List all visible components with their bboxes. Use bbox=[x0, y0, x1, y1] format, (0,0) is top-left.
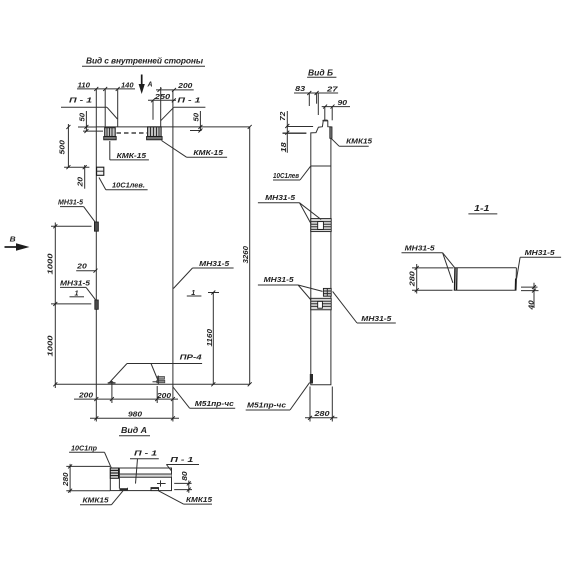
label PR-4 bbox=[109, 353, 202, 383]
svg-text:3260: 3260 bbox=[241, 245, 250, 263]
embed PR-4 item bottom-left bbox=[108, 381, 116, 384]
dim 3260 bbox=[241, 125, 252, 386]
embed KMK-15 left block bbox=[104, 128, 117, 140]
svg-text:Вид с внутренней стороны: Вид с внутренней стороны bbox=[86, 56, 203, 66]
section mark P-1 left bbox=[61, 96, 117, 120]
svg-text:80: 80 bbox=[180, 471, 189, 481]
svg-text:МН31-5: МН31-5 bbox=[58, 197, 84, 206]
svg-text:МН31-5: МН31-5 bbox=[199, 259, 230, 268]
embed 10S1pr channel block view A bbox=[110, 468, 119, 489]
svg-text:1: 1 bbox=[75, 288, 79, 297]
section cut mark 1 right bbox=[187, 288, 202, 297]
svg-text:500: 500 bbox=[58, 139, 67, 154]
section mark P-1 right bbox=[161, 96, 206, 121]
dim extension line x=117.7 bbox=[117, 89, 119, 127]
svg-text:МН31-5: МН31-5 bbox=[525, 248, 556, 257]
embed MN31-5 lower big block view B bbox=[311, 298, 331, 310]
dim 50 left bbox=[78, 111, 104, 133]
svg-text:40: 40 bbox=[527, 299, 536, 310]
dim 20 lower bbox=[76, 262, 97, 273]
embed 10S1lev item top-left bbox=[97, 167, 104, 175]
svg-text:В: В bbox=[10, 234, 17, 243]
svg-text:П - 1: П - 1 bbox=[170, 455, 193, 464]
dim 72/18 view B bbox=[278, 111, 313, 153]
view B column outline bbox=[311, 120, 331, 385]
svg-text:А: А bbox=[147, 80, 153, 89]
svg-text:27: 27 bbox=[326, 84, 339, 93]
dim 83/27 view B bbox=[294, 84, 338, 115]
embed KMK15 plate on right edge of column bbox=[330, 127, 332, 138]
dim 110 / 140 top bbox=[77, 80, 135, 91]
embed MN31-5 plate right edge 1-1 bbox=[515, 279, 517, 291]
dim 40 section 1-1 bbox=[521, 283, 539, 311]
svg-text:МН31-5: МН31-5 bbox=[405, 244, 436, 253]
label MN31-5 upper-left bbox=[58, 197, 96, 222]
dim extension x=160.7 bbox=[160, 87, 162, 127]
title view A "Вид А" bbox=[119, 425, 150, 436]
embed KMK15 right item view A bbox=[151, 488, 159, 491]
svg-text:20: 20 bbox=[76, 176, 85, 188]
svg-text:280: 280 bbox=[408, 270, 417, 287]
svg-text:Вид А: Вид А bbox=[121, 425, 147, 435]
panel bottom edge bbox=[55, 383, 249, 385]
label M51pr-chs right bbox=[246, 383, 310, 410]
svg-text:10С1лев: 10С1лев bbox=[273, 171, 299, 180]
svg-text:18: 18 bbox=[279, 141, 288, 152]
label MN31-5 right 1-1 bbox=[517, 248, 562, 279]
dim extension x=153 bbox=[152, 100, 154, 120]
svg-text:1000: 1000 bbox=[46, 253, 55, 275]
embed MN31-5 plate left edge 1-1 bbox=[455, 268, 457, 290]
dim 980 bottom bbox=[90, 410, 179, 421]
dim 90 view B bbox=[322, 98, 350, 121]
view A bar outline bbox=[110, 468, 171, 491]
svg-text:М51пр-чс: М51пр-чс bbox=[195, 399, 235, 408]
svg-text:КМК-15: КМК-15 bbox=[193, 148, 223, 157]
embed M51pr item view B bottom bbox=[310, 374, 313, 384]
title view B "Вид Б" bbox=[307, 68, 336, 78]
svg-text:110: 110 bbox=[78, 80, 91, 89]
svg-text:90: 90 bbox=[338, 98, 348, 107]
dim 280 view B bbox=[305, 387, 337, 422]
svg-text:1000: 1000 bbox=[46, 335, 55, 357]
svg-text:50: 50 bbox=[78, 112, 87, 121]
svg-text:140: 140 bbox=[121, 80, 134, 89]
section mark P-1 view A left bbox=[130, 448, 159, 483]
dim 280 section 1-1 bbox=[408, 264, 454, 294]
svg-text:50: 50 bbox=[192, 112, 201, 121]
section 1-1 slab outline bbox=[454, 268, 517, 291]
tie dashed line between embeds bbox=[117, 132, 148, 134]
label 10S1lev bbox=[99, 178, 148, 190]
panel right edge bbox=[172, 90, 174, 384]
label MN31-5 upper view B bbox=[258, 193, 321, 224]
dim chain 1000/1000 left bbox=[46, 223, 92, 389]
svg-text:200: 200 bbox=[177, 81, 193, 90]
label KMK-15 left bbox=[110, 141, 149, 160]
svg-text:МН31-5: МН31-5 bbox=[265, 193, 296, 202]
svg-text:КМК15: КМК15 bbox=[346, 137, 373, 146]
dim 200 top bbox=[156, 81, 194, 92]
embed KMK-15 right block bbox=[147, 127, 163, 140]
svg-text:П - 1: П - 1 bbox=[177, 96, 200, 105]
channel end line view B bbox=[311, 165, 331, 167]
svg-text:20: 20 bbox=[76, 262, 88, 271]
panel top edge bbox=[96, 126, 249, 128]
dim 250 bbox=[148, 92, 176, 102]
label MN31-5 bottom-right view B bbox=[333, 291, 396, 323]
label KMK-15 right bbox=[162, 141, 228, 158]
dim 80 view A right bbox=[174, 471, 192, 493]
stud cross mark view A bbox=[157, 480, 166, 486]
svg-text:П - 1: П - 1 bbox=[69, 96, 92, 105]
svg-text:П - 1: П - 1 bbox=[134, 448, 157, 457]
embed MN31-5 upper assembly view B bbox=[311, 219, 331, 232]
dim 1160 bbox=[205, 291, 219, 387]
svg-text:МН31-5: МН31-5 bbox=[361, 314, 392, 323]
svg-text:КМК15: КМК15 bbox=[186, 495, 213, 504]
svg-text:980: 980 bbox=[128, 410, 143, 419]
title: main view "Вид с внутренней стороны" bbox=[82, 56, 205, 67]
dim 200+200 bottom bbox=[74, 381, 178, 422]
svg-text:10С1пр: 10С1пр bbox=[71, 443, 97, 452]
label KMK15 view B bbox=[332, 137, 373, 147]
dim 50 right bbox=[190, 111, 202, 133]
view A inner face band bbox=[119, 474, 171, 477]
embed KMK15 left item view A bbox=[120, 488, 128, 491]
svg-text:1160: 1160 bbox=[205, 328, 214, 346]
dim extension line x=105.2 bbox=[104, 89, 106, 128]
svg-text:10С1лев.: 10С1лев. bbox=[112, 181, 145, 190]
svg-text:МН31-5: МН31-5 bbox=[60, 279, 91, 288]
svg-text:280: 280 bbox=[313, 409, 330, 418]
svg-text:Вид Б: Вид Б bbox=[308, 68, 333, 78]
title section 1-1 bbox=[468, 203, 497, 214]
dim 500 left bbox=[58, 124, 90, 169]
svg-text:КМК15: КМК15 bbox=[83, 495, 110, 504]
svg-text:1-1: 1-1 bbox=[474, 203, 490, 213]
svg-text:200: 200 bbox=[156, 391, 172, 400]
embed MN31-5 item lower-left edge bbox=[95, 300, 99, 309]
svg-text:83: 83 bbox=[295, 84, 306, 93]
svg-text:МН31-5: МН31-5 bbox=[264, 275, 295, 284]
svg-text:280: 280 bbox=[61, 472, 70, 487]
view arrow B bbox=[5, 234, 30, 250]
section mark P-1 view A right bbox=[166, 455, 199, 471]
svg-text:КМК-15: КМК-15 bbox=[117, 151, 147, 160]
label MN31-5 lower view B bbox=[258, 275, 323, 300]
section arrow A bbox=[139, 75, 153, 95]
embed MN31-5 lower small block view B bbox=[323, 288, 331, 296]
label MN31-5 lower-left bbox=[60, 279, 96, 301]
svg-text:72: 72 bbox=[278, 111, 287, 121]
label M51pr-chs left bbox=[173, 387, 236, 409]
dim 20 upper bbox=[76, 165, 87, 189]
label KMK15 view A left bbox=[80, 491, 123, 505]
svg-text:М51пр-чс: М51пр-чс bbox=[247, 401, 287, 410]
label MN31-5 mid-right bbox=[173, 259, 233, 289]
svg-text:ПР-4: ПР-4 bbox=[180, 353, 203, 362]
section cut mark 1 left bbox=[70, 288, 85, 297]
panel left edge bbox=[95, 89, 97, 384]
label MN31-5 left 1-1 bbox=[402, 244, 456, 283]
svg-text:200: 200 bbox=[78, 390, 94, 399]
label 10S1lev view B bbox=[273, 166, 311, 180]
embed PR-4 item bottom-center bbox=[153, 376, 165, 385]
dim 280 view A bbox=[61, 464, 110, 493]
label KMK15 view A right bbox=[159, 491, 213, 504]
svg-text:250: 250 bbox=[154, 92, 172, 101]
embed MN31-5 item upper-left edge bbox=[94, 222, 98, 231]
label 10S1pr view A bbox=[69, 443, 111, 467]
